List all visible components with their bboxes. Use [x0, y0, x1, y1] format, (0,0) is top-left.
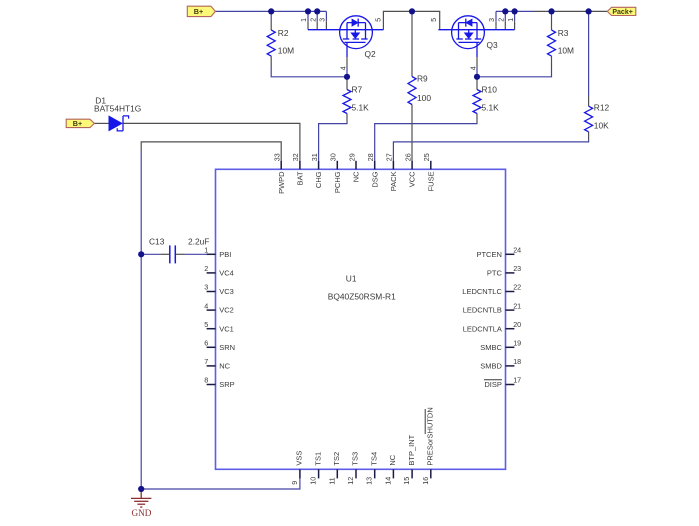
svg-text:5: 5: [204, 320, 208, 329]
svg-text:11: 11: [327, 477, 336, 484]
svg-text:Pack+: Pack+: [612, 9, 632, 16]
svg-text:B+: B+: [194, 7, 203, 16]
svg-text:NC: NC: [352, 171, 361, 182]
svg-text:25: 25: [422, 153, 431, 161]
svg-text:23: 23: [513, 264, 521, 273]
svg-text:100: 100: [417, 93, 431, 103]
svg-text:PTC: PTC: [487, 269, 503, 278]
svg-text:2: 2: [499, 18, 506, 22]
svg-text:4: 4: [204, 301, 208, 310]
svg-text:32: 32: [291, 153, 300, 161]
svg-text:PCHG: PCHG: [333, 171, 342, 193]
svg-text:26: 26: [403, 153, 412, 161]
svg-text:30: 30: [329, 153, 338, 161]
svg-text:CHG: CHG: [314, 171, 323, 188]
svg-text:U1: U1: [346, 274, 357, 284]
svg-text:31: 31: [310, 153, 319, 161]
svg-text:SRP: SRP: [219, 380, 234, 389]
svg-text:3: 3: [204, 283, 208, 292]
svg-text:2: 2: [204, 264, 208, 273]
svg-text:C13: C13: [149, 236, 165, 246]
svg-text:LEDCNTLA: LEDCNTLA: [463, 324, 502, 333]
svg-text:B+: B+: [73, 119, 82, 128]
svg-text:PBI: PBI: [219, 250, 231, 259]
svg-text:27: 27: [385, 153, 394, 161]
svg-text:5: 5: [376, 18, 383, 22]
svg-text:VSS: VSS: [295, 451, 304, 466]
svg-text:33: 33: [273, 153, 282, 161]
svg-text:5: 5: [431, 18, 438, 22]
svg-text:VC3: VC3: [219, 287, 234, 296]
svg-text:DSG: DSG: [370, 171, 379, 187]
svg-text:12: 12: [346, 477, 355, 485]
svg-text:24: 24: [513, 246, 521, 255]
svg-text:10: 10: [309, 477, 318, 485]
svg-text:4: 4: [341, 66, 348, 70]
svg-text:VCC: VCC: [408, 171, 417, 187]
svg-text:TS2: TS2: [332, 452, 341, 466]
svg-text:LEDCNTLB: LEDCNTLB: [463, 306, 502, 315]
svg-text:Q2: Q2: [365, 49, 377, 59]
svg-text:13: 13: [365, 477, 374, 485]
svg-text:22: 22: [513, 283, 521, 292]
svg-text:SRN: SRN: [219, 343, 235, 352]
svg-text:10M: 10M: [558, 46, 574, 56]
svg-text:PRESorSHUTDN: PRESorSHUTDN: [426, 407, 435, 465]
svg-text:17: 17: [513, 376, 521, 385]
svg-text:Q3: Q3: [487, 40, 499, 50]
svg-text:PWPD: PWPD: [277, 171, 286, 194]
svg-text:1: 1: [508, 18, 515, 22]
svg-text:1: 1: [301, 18, 308, 22]
svg-text:NC: NC: [219, 362, 230, 371]
svg-text:PACK: PACK: [389, 171, 398, 191]
svg-text:29: 29: [347, 153, 356, 161]
svg-text:2: 2: [310, 18, 317, 22]
svg-text:4: 4: [471, 66, 478, 70]
svg-text:8: 8: [204, 376, 208, 385]
svg-text:16: 16: [421, 477, 430, 485]
svg-text:10M: 10M: [278, 46, 294, 56]
svg-text:1: 1: [204, 246, 208, 255]
svg-text:TS1: TS1: [313, 452, 322, 466]
svg-text:15: 15: [402, 477, 411, 485]
svg-text:7: 7: [204, 357, 208, 366]
svg-text:R9: R9: [417, 74, 428, 84]
svg-text:R12: R12: [594, 103, 610, 113]
svg-text:6: 6: [204, 339, 208, 348]
svg-text:BAT: BAT: [296, 171, 305, 185]
svg-text:TS4: TS4: [369, 452, 378, 466]
svg-text:BTP_INT: BTP_INT: [407, 434, 416, 465]
svg-text:BQ40Z50RSM-R1: BQ40Z50RSM-R1: [328, 292, 396, 302]
svg-text:SMBC: SMBC: [480, 343, 502, 352]
svg-text:FUSE: FUSE: [426, 171, 435, 191]
svg-text:SMBD: SMBD: [480, 362, 502, 371]
svg-text:R7: R7: [352, 85, 363, 95]
svg-text:5.1K: 5.1K: [352, 103, 370, 113]
svg-text:10K: 10K: [594, 121, 609, 131]
svg-text:5.1K: 5.1K: [482, 103, 500, 113]
svg-text:DISP: DISP: [484, 380, 502, 389]
svg-text:NC: NC: [388, 454, 397, 465]
svg-text:VC4: VC4: [219, 269, 234, 278]
svg-text:9: 9: [290, 481, 299, 485]
svg-text:R2: R2: [278, 28, 289, 38]
svg-text:R10: R10: [482, 85, 498, 95]
svg-text:18: 18: [513, 357, 521, 366]
svg-text:GND: GND: [131, 508, 151, 518]
svg-text:19: 19: [513, 339, 521, 348]
svg-text:TS3: TS3: [351, 452, 360, 466]
svg-text:LEDCNTLC: LEDCNTLC: [462, 287, 502, 296]
svg-text:VC2: VC2: [219, 306, 234, 315]
svg-text:PTCEN: PTCEN: [476, 250, 501, 259]
svg-text:VC1: VC1: [219, 324, 234, 333]
svg-text:BAT54HT1G: BAT54HT1G: [94, 104, 141, 114]
svg-text:3: 3: [320, 18, 327, 22]
svg-text:21: 21: [513, 301, 521, 310]
svg-text:28: 28: [366, 153, 375, 161]
svg-text:20: 20: [513, 320, 521, 329]
svg-text:3: 3: [489, 18, 496, 22]
svg-text:R3: R3: [558, 28, 569, 38]
svg-text:14: 14: [383, 477, 392, 485]
